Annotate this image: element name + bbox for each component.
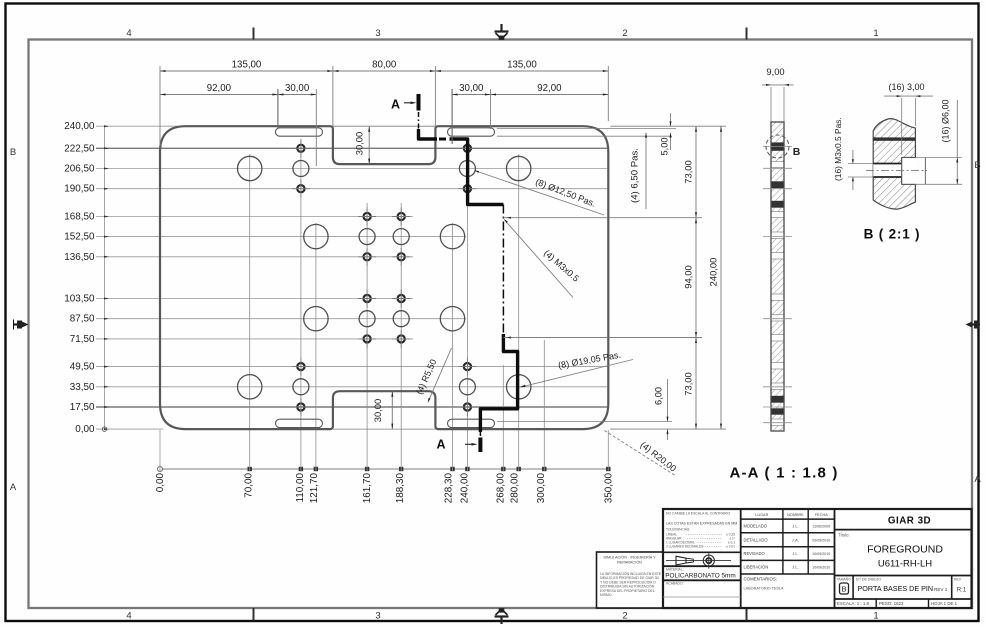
svg-text:SIMULACIÓN - INGENIERÍA Y: SIMULACIÓN - INGENIERÍA Y (603, 555, 656, 560)
svg-text:135,00: 135,00 (232, 60, 262, 71)
svg-text:LUGAR: LUGAR (755, 513, 768, 517)
svg-text:TAMAÑO: TAMAÑO (837, 577, 852, 582)
svg-text:30,00: 30,00 (354, 132, 365, 155)
svg-text:B ( 2:1 ): B ( 2:1 ) (864, 227, 921, 242)
svg-text:J.L.: J.L. (792, 565, 798, 570)
svg-text:73,00: 73,00 (683, 372, 694, 395)
svg-text:280,00: 280,00 (510, 473, 521, 504)
svg-text:B: B (841, 585, 846, 594)
svg-text:9,00: 9,00 (766, 66, 784, 77)
svg-text:350,00: 350,00 (604, 473, 615, 504)
svg-text:A: A (436, 438, 445, 452)
svg-text:3: 3 (375, 611, 380, 622)
svg-text:4: 4 (126, 28, 131, 39)
svg-text:COMENTARIOS:: COMENTARIOS: (744, 577, 778, 582)
svg-text:HOJA 1 DE 1: HOJA 1 DE 1 (931, 601, 958, 606)
svg-text:49,50: 49,50 (70, 362, 95, 373)
svg-text:ESCALA: 1 : 1.8: ESCALA: 1 : 1.8 (837, 601, 870, 606)
svg-text:J.A.: J.A. (792, 538, 799, 543)
svg-text:152,50: 152,50 (64, 232, 95, 243)
svg-text:REV 1: REV 1 (934, 587, 948, 592)
svg-text:(16) 3,00: (16) 3,00 (888, 82, 924, 92)
svg-text:70,00: 70,00 (243, 472, 254, 497)
svg-text:168,50: 168,50 (64, 212, 95, 223)
svg-text:300,00: 300,00 (536, 473, 547, 504)
svg-text:A: A (391, 98, 400, 112)
svg-text:4: 4 (126, 611, 131, 622)
svg-text:33,50: 33,50 (70, 382, 95, 393)
svg-text:REVISADO: REVISADO (744, 551, 765, 556)
svg-text:U611-RH-LH: U611-RH-LH (878, 559, 932, 570)
svg-text:30,00: 30,00 (459, 83, 484, 94)
svg-text:240,00: 240,00 (460, 473, 471, 504)
svg-text:LABORATORIO TESLA: LABORATORIO TESLA (744, 587, 785, 591)
svg-text:5,00: 5,00 (660, 138, 670, 156)
svg-text:PORTA BASES DE PIN: PORTA BASES DE PIN (858, 584, 934, 593)
svg-text:J.L.: J.L. (792, 524, 798, 529)
svg-text:228,30: 228,30 (444, 473, 455, 504)
svg-text:206,50: 206,50 (64, 164, 95, 175)
svg-text:0,00: 0,00 (155, 473, 166, 493)
svg-text:(16) Ø6,00: (16) Ø6,00 (941, 99, 951, 142)
svg-text:10/09/2010: 10/09/2010 (812, 566, 830, 570)
svg-text:190,50: 190,50 (64, 184, 95, 195)
svg-text:87,50: 87,50 (70, 314, 95, 325)
svg-text:LAS COTAS ESTÁN EXPRESADAS EN: LAS COTAS ESTÁN EXPRESADAS EN MM (666, 522, 737, 526)
svg-text:222,50: 222,50 (64, 143, 95, 154)
svg-text:11/06/2009: 11/06/2009 (812, 525, 830, 529)
svg-text:2: 2 (622, 28, 627, 39)
svg-text:240,00: 240,00 (708, 258, 719, 287)
svg-text:REPARACIÓN: REPARACIÓN (617, 560, 642, 565)
svg-text:GIAR 3D: GIAR 3D (888, 516, 931, 527)
svg-text:POLICARBONATO 5mm: POLICARBONATO 5mm (665, 573, 735, 580)
svg-text:NO CAMBIE LA ESCALA AL CONTRAR: NO CAMBIE LA ESCALA AL CONTRARIO (666, 512, 730, 516)
svg-text:A: A (974, 474, 981, 485)
svg-text:92,00: 92,00 (207, 83, 232, 94)
svg-text:161,70: 161,70 (362, 473, 373, 504)
svg-text:103,50: 103,50 (64, 294, 95, 305)
svg-text:121,70: 121,70 (309, 473, 320, 504)
svg-text:268,00: 268,00 (495, 473, 506, 504)
svg-text:03/09/2010: 03/09/2010 (812, 539, 830, 543)
svg-text:B: B (974, 160, 980, 171)
svg-text:110,00: 110,00 (295, 473, 306, 503)
svg-text:240,00: 240,00 (64, 121, 95, 132)
svg-text:80,00: 80,00 (372, 60, 397, 71)
svg-text:188,30: 188,30 (395, 473, 406, 504)
svg-text:10/09/2010: 10/09/2010 (812, 552, 830, 556)
svg-text:17,50: 17,50 (70, 402, 95, 413)
svg-text:NOMBRE: NOMBRE (787, 513, 804, 517)
svg-text:2: 2 (622, 611, 627, 622)
svg-text:FOREGROUND: FOREGROUND (867, 544, 943, 556)
svg-text:MISMO.: MISMO. (600, 593, 612, 597)
svg-text:A-A ( 1 : 1.8 ): A-A ( 1 : 1.8 ) (729, 465, 838, 482)
svg-text:A: A (10, 482, 17, 493)
svg-text:TOLERANCIAS:: TOLERANCIAS: (666, 528, 690, 532)
svg-text:R:1: R:1 (957, 588, 967, 594)
svg-text:B: B (793, 146, 801, 158)
svg-text:3: 3 (375, 28, 380, 39)
svg-text:73,00: 73,00 (683, 160, 694, 183)
svg-text:94,00: 94,00 (683, 265, 694, 288)
svg-text:DETALLADO: DETALLADO (744, 538, 768, 543)
svg-text:30,00: 30,00 (372, 399, 383, 422)
svg-text:J.L.: J.L. (792, 551, 798, 556)
svg-text:FECHA: FECHA (815, 513, 828, 517)
svg-text:1: 1 (873, 611, 878, 622)
svg-text:N.º DE DIBUJO: N.º DE DIBUJO (856, 578, 881, 582)
svg-text:B: B (10, 147, 16, 158)
svg-text:ACABADO:: ACABADO: (666, 582, 684, 586)
svg-text:(16) M3x0.5 Pas.: (16) M3x0.5 Pas. (833, 117, 843, 181)
svg-text:± 0,01: ± 0,01 (726, 545, 735, 549)
svg-text:REV: REV (954, 578, 962, 582)
svg-text:71,50: 71,50 (70, 334, 95, 345)
svg-text:PESO: 1623: PESO: 1623 (879, 601, 904, 606)
svg-text:(4) 6,50 Pas.: (4) 6,50 Pas. (630, 148, 641, 203)
svg-text:LIBERACIÓN: LIBERACIÓN (744, 565, 769, 570)
svg-text:MATERIAL:: MATERIAL: (666, 568, 684, 572)
svg-text:MODELADO: MODELADO (744, 524, 767, 529)
svg-text:6,00: 6,00 (654, 387, 664, 405)
svg-text:92,00: 92,00 (537, 83, 562, 94)
svg-text:136,50: 136,50 (64, 252, 95, 263)
svg-text:2 LUGARES DECIMALES: 2 LUGARES DECIMALES (666, 545, 703, 549)
svg-text:135,00: 135,00 (507, 60, 537, 71)
svg-text:30,00: 30,00 (285, 83, 310, 94)
svg-text:1: 1 (873, 28, 878, 39)
svg-text:0,00: 0,00 (75, 424, 95, 435)
svg-text:TÍtulo:: TÍtulo: (838, 533, 850, 538)
